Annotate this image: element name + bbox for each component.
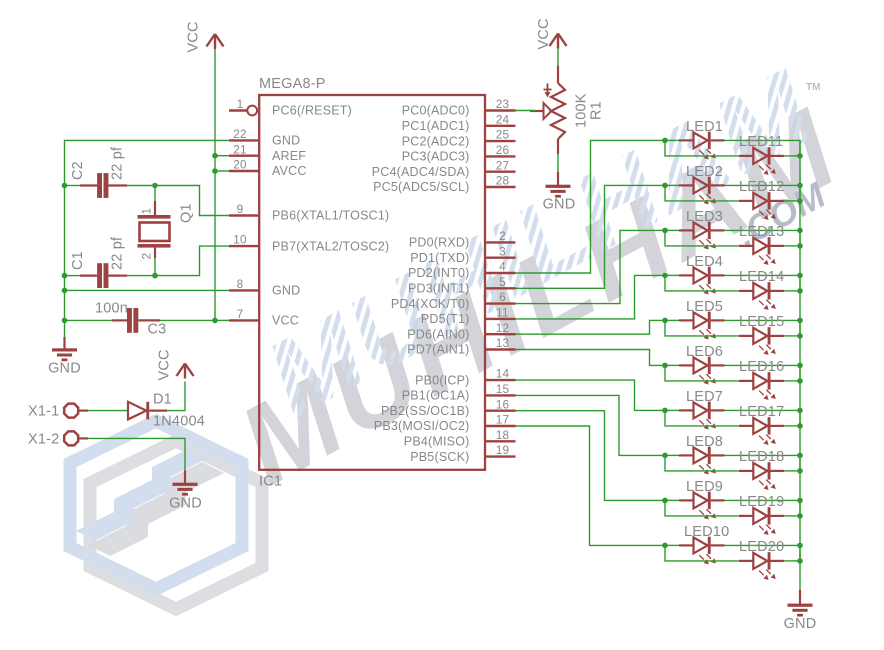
IC1 pin 2 PD0(RXD) [409,229,516,250]
node junction bus LED2 row [797,183,803,189]
wire LED2 cathode to bus [725,185,801,201]
svg-text:1: 1 [140,208,154,215]
wire LED1 anode [665,139,679,141]
IC1 pin 10 PB7(XTAL2/TOSC2) [229,233,389,254]
wire vcc rail to pin7 [215,319,229,321]
D1 value 1N4004 [153,414,205,430]
svg-text:C2: C2 [70,161,86,180]
IC1 pin 6 PD4(XCK/T0) [391,290,516,311]
node junction bus LED17 row [797,423,803,429]
svg-text:LED14: LED14 [739,269,784,285]
IC1 title MEGA8-P [259,76,326,92]
wire drop to LED14 [665,275,739,291]
wire drop to LED15 [665,320,739,336]
IC1 pin 25 PC2(ADC2) [402,128,516,149]
LED LED14 [739,269,785,310]
svg-text:PC2(ADC2): PC2(ADC2) [402,134,470,148]
ground symbol bottom right [788,604,813,617]
svg-text:PB5(SCK): PB5(SCK) [410,450,469,464]
node junction LED4 anode [662,273,668,279]
svg-text:GND: GND [272,284,300,298]
svg-text:1N4004: 1N4004 [153,414,205,430]
svg-text:GND: GND [48,361,81,377]
GND label below R1 [543,197,576,213]
wire GND net pin22 to left rail [65,140,230,337]
node junction bus LED16 row [797,378,803,384]
LED LED9 [679,479,725,520]
node junction bus LED4 row [797,273,803,279]
LED LED3 [679,209,725,250]
wire LED1 cathode to bus [725,140,801,156]
wire VCC rail down to pin7 row [214,49,216,320]
svg-text:2: 2 [499,229,506,243]
resistor R1 trimmer [530,66,565,154]
svg-text:LED7: LED7 [686,389,723,405]
wire LED5 cathode to bus [725,320,801,336]
svg-text:LED13: LED13 [739,224,784,240]
IC1 pin 11 PD5(T1) [421,306,516,327]
svg-text:Q1: Q1 [179,203,195,223]
wire drop to LED17 [665,410,739,426]
svg-text:4: 4 [499,260,506,274]
LED LED19 [739,494,785,535]
wire drop to LED19 [665,500,739,516]
wire LED8 anode [665,454,679,456]
IC1 pin 12 PD6(AIN0) [407,321,515,342]
node junction vcc-pin7 [212,318,218,324]
ground symbol left [52,348,77,361]
node junction bus LED15 row [797,333,803,339]
svg-text:AVCC: AVCC [272,164,307,178]
LED LED13 [739,224,785,265]
svg-text:22 pf: 22 pf [110,236,126,270]
Q1 pin 2 label [140,253,154,260]
node junction LED9 anode [662,498,668,504]
node junction pin7-gnd [62,318,68,324]
svg-text:26: 26 [496,143,510,157]
svg-text:25: 25 [496,128,510,142]
svg-text:19: 19 [496,443,510,457]
wire D1 to VCC [167,382,185,411]
node junction LED3 anode [662,228,668,234]
svg-text:PD7(AIN1): PD7(AIN1) [407,343,469,357]
LED LED11 [739,134,785,175]
wire LED14 cathode to bus [784,290,800,292]
svg-text:LED1: LED1 [686,119,723,135]
LED LED4 [679,254,725,295]
C3 label [148,322,167,338]
IC1 pin 28 PC5(ADC5/SCL) [373,174,515,195]
svg-text:PD5(T1): PD5(T1) [421,312,470,326]
svg-text:PD6(AIN0): PD6(AIN0) [407,327,469,341]
svg-text:24: 24 [496,112,510,126]
wire pin23 to R1 wiper [516,110,536,112]
wire LED13 cathode to bus [784,245,800,247]
IC1 pin 26 PC3(ADC3) [402,143,516,164]
svg-text:5: 5 [499,275,506,289]
svg-text:PD3(INT1): PD3(INT1) [408,282,470,296]
wire AVCC pin20 [215,170,229,172]
svg-text:2: 2 [140,253,154,260]
IC1 pin 27 PC4(ADC4/SDA) [372,158,516,179]
wire drop to LED11 [665,140,739,156]
IC1 pin 19 PB5(SCK) [410,443,515,464]
wire LED4 cathode to bus [725,275,801,291]
IC1 pin 18 PB4(MISO) [404,428,516,449]
node junction bus LED3 row [797,228,803,234]
IC1 refdes label [259,474,282,490]
IC1 pin 21 AREF [229,142,306,163]
node junction bus LED6 row [797,363,803,369]
wire AREF pin21 [215,155,229,157]
svg-text:9: 9 [237,202,244,216]
svg-text:PB0(ICP): PB0(ICP) [415,373,469,387]
svg-text:18: 18 [496,428,510,442]
wire pin4 to LED1 row [516,140,666,273]
IC1 pin 20 AVCC [229,158,307,179]
wire drop to LED12 [665,185,739,201]
svg-text:LED12: LED12 [739,179,784,195]
svg-text:LED4: LED4 [686,254,723,270]
vcc symbol above R1 [550,34,567,49]
LED LED7 [679,389,725,430]
wire pin11 to LED4 row [516,275,666,319]
wire vcc to R1 [557,49,559,68]
node junction bus LED5 row [797,318,803,324]
node junction bus LED14 row [797,288,803,294]
GND label left [48,361,81,377]
wire pin13 to LED6 row [516,350,666,366]
node junction C2-gnd [62,183,68,189]
svg-text:27: 27 [496,158,510,172]
wire xtal1 node down to crystal [154,186,156,204]
IC1 pin 1 PC6(/RESET) [229,97,352,118]
svg-text:IC1: IC1 [259,474,282,490]
wire gnd stub X1-2 [184,470,186,483]
svg-text:100K: 100K [574,93,590,128]
R1 value 100K [574,93,590,128]
X1-2 label [28,431,59,447]
IC1 pin 13 PD7(AIN1) [407,336,515,357]
svg-text:PC0(ADC0): PC0(ADC0) [402,104,470,118]
LED LED20 [739,539,785,580]
wire LED10 anode [665,544,679,546]
node junction bus LED20 row [797,558,803,564]
VCC label above R1 [536,18,552,49]
node junction bus LED18 row [797,468,803,474]
svg-text:PB2(SS/OC1B): PB2(SS/OC1B) [381,404,470,418]
wire pin14 to LED7 row [516,380,666,410]
svg-text:LED3: LED3 [686,209,723,225]
wire drop to LED16 [665,365,739,381]
node junction LED5 anode [662,318,668,324]
IC1 pin 15 PB1(OC1A) [402,382,516,403]
vcc symbol left rail [207,34,224,49]
VCC label left rail [186,21,202,52]
VCC label above D1 [157,349,173,380]
svg-text:PD4(XCK/T0): PD4(XCK/T0) [391,297,470,311]
svg-text:LED11: LED11 [739,134,783,150]
svg-text:PB4(MISO): PB4(MISO) [404,435,470,449]
svg-text:GND: GND [272,134,300,148]
wire gnd to C2 [65,185,81,187]
wire bus gnd stub [799,590,801,605]
IC1 pin 23 PC0(ADC0) [402,97,516,118]
svg-text:LED8: LED8 [686,434,723,450]
LED LED5 [679,299,725,340]
svg-text:21: 21 [233,142,247,156]
LED LED8 [679,434,725,475]
svg-text:16: 16 [496,397,510,411]
svg-text:GND: GND [169,496,202,512]
ground symbol below R1 [546,185,571,198]
wire LED16 cathode to bus [784,380,800,382]
svg-text:PC6(/RESET): PC6(/RESET) [272,104,352,118]
wire X1-1 to D1 [88,410,128,412]
node junction bus LED13 row [797,243,803,249]
LED LED17 [739,404,785,445]
svg-text:LED9: LED9 [686,479,723,495]
svg-text:VCC: VCC [272,314,299,328]
wire LED17 cathode to bus [784,425,800,427]
LED LED18 [739,449,785,490]
node junction AREF [212,153,218,159]
svg-text:20: 20 [233,158,247,172]
wire crystal pin2 to xtal2 node [154,258,156,276]
node junction LED7 anode [662,408,668,414]
wire LED18 cathode to bus [784,470,800,472]
svg-text:13: 13 [496,336,510,350]
wire LED3 anode [665,229,679,231]
svg-text:X1-2: X1-2 [28,431,59,447]
D1 label [153,392,172,408]
svg-text:PC3(ADC3): PC3(ADC3) [402,150,470,164]
svg-text:LED18: LED18 [739,449,784,465]
C3 value 100n [95,301,128,317]
LED LED12 [739,179,785,220]
wire C2 to xtal1 node [127,185,155,187]
svg-text:PC4(ADC4/SDA): PC4(ADC4/SDA) [372,165,470,179]
svg-text:VCC: VCC [536,18,552,49]
node junction bus LED11 row [797,153,803,159]
svg-text:PB3(MOSI/OC2): PB3(MOSI/OC2) [374,419,470,433]
IC U-box IC1 MEGA8-P outline [259,95,485,470]
svg-text:PD2(INT0): PD2(INT0) [408,266,470,280]
svg-text:8: 8 [237,277,244,291]
svg-text:PD0(RXD): PD0(RXD) [409,236,470,250]
IC1 pin 7 VCC [229,307,299,328]
ground symbol below X1-2 [173,483,198,496]
svg-text:AREF: AREF [272,149,306,163]
svg-text:LED10: LED10 [684,524,729,540]
svg-text:3: 3 [499,244,506,258]
Q1 pin 1 label [140,208,154,215]
node junction pin8-gnd [62,288,68,294]
C1 label [70,251,86,270]
X1-1 label [28,404,59,420]
LED LED10 [679,524,729,565]
svg-text:GND: GND [784,616,817,632]
wire LED2 anode [665,184,679,186]
wire LED8 cathode to bus [725,455,801,471]
svg-text:22 pf: 22 pf [110,146,126,180]
node junction bus LED8 row [797,453,803,459]
svg-text:23: 23 [496,97,510,111]
Q1 label [179,203,195,223]
watermark background logo [70,45,860,609]
wire LED11 cathode to bus [784,155,800,157]
svg-text:12: 12 [496,321,510,335]
svg-text:11: 11 [496,306,509,320]
wire R1 to gnd [557,154,559,172]
GND label below X1-2 [169,496,202,512]
node junction XTAL1 [152,183,158,189]
wire LED6 cathode to bus [725,365,801,381]
node junction LED2 anode [662,183,668,189]
svg-text:D1: D1 [153,392,172,408]
wire gnd to C1 [65,275,81,277]
wire xtal1 node to pin9 [155,186,229,216]
wire gnd to C3 [65,319,113,321]
node junction LED10 anode [662,543,668,549]
svg-text:PB7(XTAL2/TOSC2): PB7(XTAL2/TOSC2) [272,239,389,253]
wire LED19 cathode to bus [784,515,800,517]
IC1 pin 3 PD1(TXD) [410,244,515,265]
IC1 pin 16 PB2(SS/OC1B) [381,397,516,418]
node junction bus LED12 row [797,198,803,204]
svg-text:LED17: LED17 [739,404,784,420]
IC1 pin 22 GND [229,127,300,148]
wire LED6 anode [665,364,679,366]
LED LED15 [739,314,785,355]
wire LED10 cathode to bus [725,545,801,561]
IC1 pin 4 PD2(INT0) [408,260,516,281]
svg-text:LED19: LED19 [739,494,784,510]
svg-text:VCC: VCC [157,349,173,380]
IC1 pin 14 PB0(ICP) [415,367,515,388]
node junction XTAL2 [152,273,158,279]
svg-text:R1: R1 [589,101,605,120]
wire X1-2 to gnd [88,438,185,470]
svg-text:LED15: LED15 [739,314,784,330]
wire C1 to xtal2 node [127,275,155,277]
node junction bus LED19 row [797,513,803,519]
node junction bus LED9 row [797,498,803,504]
wire gnd to pin8 [65,289,230,291]
svg-text:22: 22 [233,127,247,141]
node junction LED6 anode [662,363,668,369]
LED LED2 [679,164,725,205]
wire pin16 to LED9 row [516,411,666,501]
wire LED20 cathode to bus [784,560,800,562]
svg-text:X1-1: X1-1 [28,404,59,420]
svg-text:MEGA8-P: MEGA8-P [259,76,326,92]
svg-text:PC1(ADC1): PC1(ADC1) [402,119,470,133]
svg-text:TM: TM [806,82,820,93]
svg-text:17: 17 [496,413,510,427]
wire GND stub to symbol [63,337,65,349]
IC1 pin 5 PD3(INT1) [408,275,516,296]
vcc symbol above D1 [177,364,194,379]
svg-text:LED2: LED2 [686,164,723,180]
node junction AVCC [212,168,218,174]
GND label bottom right [784,616,817,632]
crystal Q1 [138,201,171,258]
node junction bus LED7 row [797,408,803,414]
svg-text:LED20: LED20 [739,539,784,555]
wire LED15 cathode to bus [784,335,800,337]
svg-text:1: 1 [237,97,244,111]
wire drop to LED13 [665,230,739,246]
C2 value 22 pf [110,146,126,180]
wire pin6 to LED3 row [516,230,666,303]
C2 label [70,161,86,180]
node junction bus LED10 row [797,543,803,549]
IC1 pin 24 PC1(ADC1) [402,112,516,133]
svg-text:PB1(OC1A): PB1(OC1A) [402,389,470,403]
svg-text:PC5(ADC5/SCL): PC5(ADC5/SCL) [373,180,469,194]
wire R1 gnd stub [557,172,559,186]
capacitor C3 [112,308,160,333]
wire drop to LED20 [665,545,739,561]
svg-text:PB6(XTAL1/TOSC1): PB6(XTAL1/TOSC1) [272,209,389,223]
svg-text:C1: C1 [70,251,86,270]
svg-text:10: 10 [233,233,247,247]
wire LED4 anode [665,274,679,276]
LED LED1 [679,119,725,160]
IC1 pin 17 PB3(MOSI/OC2) [374,413,516,434]
node junction LED1 anode [662,138,668,144]
wire LED9 anode [665,499,679,501]
svg-text:7: 7 [237,307,244,321]
svg-text:14: 14 [496,367,510,381]
wire LED5 anode [665,319,679,321]
svg-text:LED16: LED16 [739,359,784,375]
svg-text:GND: GND [543,197,576,213]
wire pin12 to LED5 row [516,320,666,334]
connector pin X1-2 [64,431,88,445]
capacitor C2 [80,173,127,198]
node junction LED8 anode [662,453,668,459]
wire xtal2 node to pin10 [155,246,229,276]
wire LED12 cathode to bus [784,200,800,202]
wire pin17 to LED10 row [516,426,666,545]
connector pin X1-1 [64,404,88,418]
diode D1 [128,402,167,420]
IC1 pin 8 GND [229,277,300,298]
svg-text:VCC: VCC [186,21,202,52]
wire LED7 anode [665,409,679,411]
wire LED3 cathode to bus [725,230,801,246]
svg-text:6: 6 [499,290,506,304]
LED LED16 [739,359,785,400]
wire LED7 cathode to bus [725,410,801,426]
svg-text:28: 28 [496,174,510,188]
svg-text:100n: 100n [95,301,128,317]
capacitor C1 [80,263,127,288]
node junction C1-gnd [62,273,68,279]
LED LED6 [679,344,725,385]
R1 label [589,101,605,120]
wire cathode bus [799,140,801,590]
svg-text:LED5: LED5 [686,299,723,315]
svg-text:LED6: LED6 [686,344,723,360]
svg-text:PD1(TXD): PD1(TXD) [410,251,469,265]
IC1 pin 9 PB6(XTAL1/TOSC1) [229,202,389,223]
svg-text:15: 15 [496,382,510,396]
C1 value 22 pf [110,236,126,270]
wire LED9 cathode to bus [725,500,801,516]
